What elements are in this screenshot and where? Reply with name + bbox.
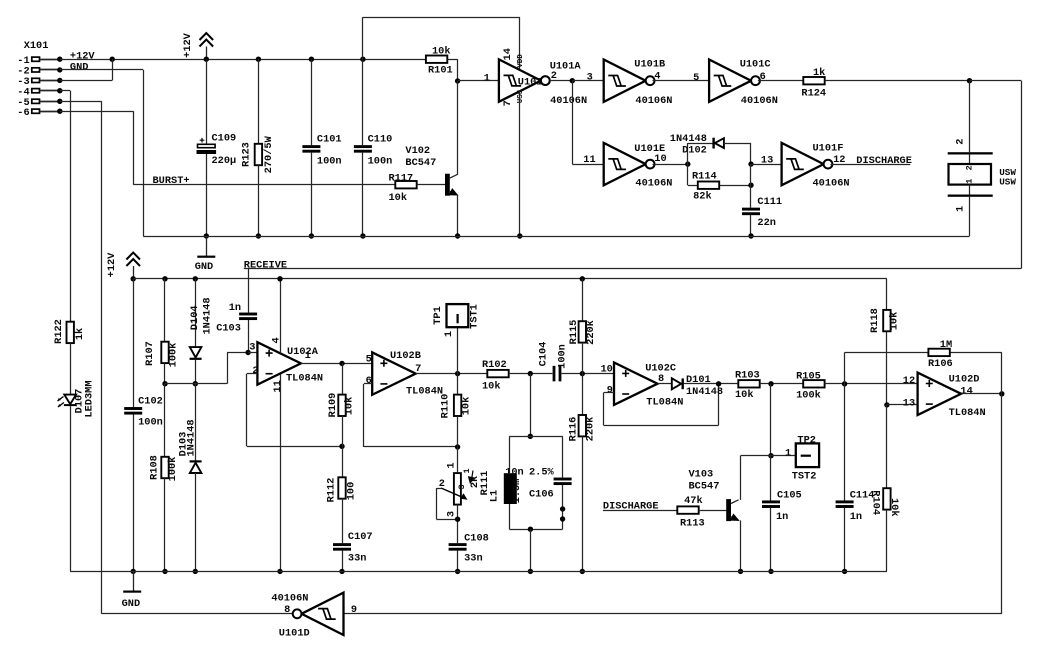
- svg-text:100k: 100k: [796, 389, 821, 401]
- junction +12V mid rail at R107: [162, 276, 167, 281]
- wire branch down to U101E pin 11: [572, 81, 574, 164]
- transistor V102 BC547: [445, 174, 450, 196]
- svg-text:33n: 33n: [464, 552, 483, 564]
- wire D102 anode side: [688, 143, 714, 145]
- svg-text:1N4148: 1N4148: [670, 133, 707, 145]
- svg-text:TL084N: TL084N: [286, 373, 323, 385]
- junction U102D pin13 node: [884, 402, 889, 407]
- wire crystal to bottom plate: [969, 185, 971, 195]
- svg-text:R108: R108: [149, 455, 161, 480]
- junction +12V mid rail at D104: [193, 276, 198, 281]
- wire transducer top lead: [969, 81, 971, 153]
- wire R115 upper: [582, 279, 584, 321]
- junction bottom rail at C101: [309, 233, 314, 238]
- svg-text:U101C: U101C: [740, 58, 771, 70]
- svg-text:10k: 10k: [389, 192, 408, 204]
- svg-text:BURST+: BURST+: [153, 175, 190, 187]
- svg-text:1.5m: 1.5m: [511, 479, 523, 504]
- junction GND rail at D103: [193, 569, 198, 574]
- resistor R107 100k: [161, 342, 168, 363]
- junction R109 top: [339, 361, 344, 366]
- svg-text:USW: USW: [999, 176, 1016, 187]
- svg-text:10k: 10k: [735, 389, 754, 401]
- svg-text:1n: 1n: [850, 511, 862, 523]
- svg-text:TST2: TST2: [792, 471, 817, 483]
- wire tank top rail: [509, 436, 562, 438]
- wire U102A pin4 to +12V rail: [280, 279, 282, 353]
- svg-text:220k: 220k: [585, 417, 597, 442]
- wire C105 upper: [770, 456, 772, 501]
- wire U102A pin2 feedback: [247, 373, 258, 375]
- wire R104 lower: [886, 510, 888, 572]
- svg-text:R102: R102: [482, 359, 507, 371]
- inductor L1 1.5m: [504, 473, 517, 504]
- svg-text:C111: C111: [757, 196, 782, 208]
- junction U102A pin3 node: [245, 350, 250, 355]
- wire right border down to RECEIVE: [1021, 81, 1023, 269]
- transducer USW bottom plate: [948, 195, 993, 197]
- wire D103 upper: [195, 384, 197, 461]
- wire pin 1 into U101A: [458, 80, 499, 82]
- power symbol +12V arrow (top): [200, 33, 214, 47]
- svg-text:100k: 100k: [168, 343, 180, 368]
- resistor R115 220k: [579, 321, 586, 342]
- junction bottom rail at R123: [256, 233, 261, 238]
- svg-text:40106N: 40106N: [741, 95, 778, 107]
- svg-text:C102: C102: [138, 395, 163, 407]
- svg-text:TL084N: TL084N: [406, 385, 443, 397]
- svg-text:1k: 1k: [74, 328, 86, 340]
- wire node riser to pin3 row: [227, 353, 229, 384]
- wire R116 upper: [582, 374, 584, 415]
- capacitor C103 1n: [239, 313, 257, 316]
- svg-text:1: 1: [462, 468, 472, 473]
- svg-text:R115: R115: [568, 320, 580, 345]
- resistor R117 10k: [395, 181, 416, 188]
- capacitor C109 electrolytic 220u: [200, 138, 205, 143]
- svg-text:100k: 100k: [167, 457, 179, 482]
- diode D102 1N4148 (cathode left): [712, 138, 714, 149]
- junction GND rail at C102: [131, 569, 136, 574]
- svg-text:33n: 33n: [348, 552, 367, 564]
- svg-text:100: 100: [346, 482, 358, 501]
- wire transducer bottom lead to rail: [969, 197, 971, 236]
- wire R102 right: [509, 373, 553, 375]
- junction output/feedback: [999, 391, 1004, 396]
- wire to TST2: [741, 455, 796, 457]
- junction GND rail at V103: [738, 569, 743, 574]
- svg-text:10k: 10k: [344, 397, 356, 416]
- transistor V103 BC547: [726, 499, 731, 521]
- svg-text:C105: C105: [777, 490, 802, 502]
- wire R113 to V103 base: [699, 510, 727, 512]
- svg-text:R124: R124: [801, 87, 826, 99]
- wire R122 to LED: [70, 343, 72, 395]
- junction transducer feed: [967, 78, 972, 83]
- junction R103/R105/TP2 node: [768, 381, 773, 386]
- wire C110 column upper: [362, 59, 364, 145]
- svg-text:L1: L1: [489, 490, 501, 502]
- svg-text:D104: D104: [189, 305, 201, 330]
- svg-text:1N4148: 1N4148: [202, 297, 214, 334]
- svg-text:GND: GND: [195, 261, 214, 273]
- svg-text:82k: 82k: [693, 191, 712, 203]
- wire R101 to pin1 node: [447, 59, 457, 61]
- transducer USW crystal body: [949, 164, 992, 185]
- junction +12V mid rail at U102A pin4: [277, 276, 282, 281]
- wire X101 pin -2 GND to top rail: [60, 69, 143, 71]
- wire C107 lower: [342, 551, 344, 572]
- wire C101 column upper: [311, 59, 313, 145]
- resistor R102 10k: [487, 370, 508, 377]
- svg-text:+12V: +12V: [182, 32, 194, 58]
- svg-text:U101F: U101F: [813, 143, 844, 155]
- svg-text:10: 10: [601, 364, 613, 376]
- svg-text:LED3MM: LED3MM: [84, 380, 96, 417]
- resistor R118 10k: [883, 310, 890, 331]
- wire C102 column upper: [133, 279, 135, 407]
- junction +12V rail at R123: [256, 57, 261, 62]
- svg-text:C103: C103: [216, 322, 241, 334]
- svg-text:100n: 100n: [317, 155, 342, 167]
- junction node +12V at x101-3 riser: [110, 57, 115, 62]
- wire R108 lower: [164, 478, 166, 571]
- op-amp U102A TL084N: [257, 342, 301, 384]
- wire pin3 into U102A: [248, 352, 257, 354]
- wire R117 to V102 base: [417, 184, 445, 186]
- svg-text:R122: R122: [53, 319, 65, 344]
- resistor R109 10k: [338, 395, 345, 416]
- svg-text:100n: 100n: [368, 155, 393, 167]
- junction TP2/V103 collector node: [768, 453, 773, 458]
- ground symbol GND (top): [206, 236, 208, 257]
- wire C103 from RECEIVE: [248, 269, 250, 313]
- junction pin12/R106/C114 node: [842, 381, 847, 386]
- wire R109 column upper: [342, 363, 344, 394]
- wire VDD loop: down to U101A pin 14: [519, 17, 521, 70]
- svg-text:+12V: +12V: [106, 252, 118, 278]
- junction GND rail at C114: [842, 569, 847, 574]
- resistor R123 270/5W: [255, 144, 262, 165]
- svg-text:40106N: 40106N: [635, 95, 672, 107]
- svg-text:1: 1: [965, 179, 975, 184]
- resistor R124 1k: [803, 77, 824, 84]
- svg-text:TP2: TP2: [797, 434, 816, 446]
- svg-text:C110: C110: [368, 133, 393, 145]
- svg-text:C109: C109: [212, 133, 237, 145]
- stray junction dots below C106: [560, 506, 565, 511]
- svg-text:11: 11: [583, 154, 595, 166]
- svg-text:2: 2: [965, 165, 975, 170]
- capacitor C110 100n: [354, 145, 372, 148]
- wire bottom return to U101D input: [344, 613, 1002, 615]
- junction +12V rail at C110: [360, 57, 365, 62]
- wire VDD loop: left riser: [362, 17, 364, 59]
- capacitor C114 1n: [836, 500, 854, 503]
- wire U102A pin11 to GND rail: [280, 374, 282, 572]
- junction pin13 node: [748, 161, 753, 166]
- svg-text:11: 11: [272, 380, 284, 392]
- wire mid GND rail: [70, 571, 887, 573]
- svg-text:C104: C104: [538, 342, 550, 367]
- wire V103 collector riser: [740, 456, 742, 500]
- capacitor C111 22n: [742, 208, 760, 211]
- svg-text:13: 13: [903, 397, 915, 409]
- svg-text:40106N: 40106N: [813, 178, 850, 190]
- wire TP2 branch down: [770, 384, 772, 456]
- wire C104 to U102C pin10: [562, 373, 614, 375]
- svg-text:R101: R101: [428, 65, 453, 77]
- junction GND rail at R116: [580, 569, 585, 574]
- inverter U101B 40106N: [604, 60, 646, 102]
- svg-text:40106N: 40106N: [271, 592, 308, 604]
- ground symbol GND (bottom): [133, 571, 135, 591]
- svg-text:6: 6: [760, 71, 766, 83]
- svg-text:10k: 10k: [888, 498, 900, 517]
- diode D101 1N4148 (cathode right): [672, 378, 681, 389]
- svg-text:R123: R123: [241, 142, 253, 167]
- wire L1 upper: [509, 436, 511, 473]
- junction +12V mid rail at arrow/C102: [131, 276, 136, 281]
- wire V102 collector riser: [457, 81, 459, 175]
- capacitor C108 33n: [449, 543, 467, 546]
- capacitor C102 100n: [124, 407, 142, 410]
- svg-text:3: 3: [587, 72, 593, 84]
- wire C105 lower: [770, 508, 772, 572]
- wire U101A output to branch node: [550, 80, 573, 82]
- junction U101A pin 1 node: [455, 78, 460, 83]
- svg-text:R106: R106: [928, 358, 953, 370]
- wire R111 top: [457, 447, 459, 473]
- resistor R112 100: [338, 477, 345, 498]
- svg-text:1: 1: [305, 350, 311, 362]
- wire node up to D102: [687, 143, 689, 164]
- svg-text:40106N: 40106N: [635, 177, 672, 189]
- svg-text:12: 12: [903, 375, 915, 387]
- wire C106 lower: [562, 485, 564, 529]
- wire X101 pin -4 down to R122: [60, 90, 70, 92]
- svg-text:1N4148: 1N4148: [686, 386, 723, 398]
- inverter U101E 40106N: [604, 143, 646, 185]
- wire R116 lower: [582, 436, 584, 571]
- diode D103 1N4148 (cathode up): [190, 460, 202, 462]
- svg-text:R118: R118: [869, 308, 881, 333]
- svg-text:10: 10: [654, 153, 666, 165]
- svg-text:14: 14: [960, 385, 972, 397]
- svg-text:1: 1: [443, 331, 455, 337]
- wire R118 from +12V rail: [886, 279, 888, 310]
- wire R123 column lower: [258, 165, 260, 236]
- svg-text:6: 6: [366, 375, 372, 387]
- wire R114 right to node: [720, 185, 751, 187]
- svg-text:VDD: VDD: [517, 54, 525, 68]
- wire X101 pin -3 to +12V: [60, 80, 112, 82]
- svg-text:1: 1: [446, 462, 458, 468]
- svg-text:270/5W: 270/5W: [263, 135, 275, 173]
- svg-text:R112: R112: [326, 478, 338, 503]
- svg-text:D101: D101: [686, 374, 711, 386]
- svg-text:1k: 1k: [813, 67, 825, 79]
- junction R110/TP1 node: [455, 371, 460, 376]
- junction D102/R114 left: [685, 161, 690, 166]
- wire R106 feedback riser right: [1001, 352, 1003, 393]
- wire U102B pin6 feedback: [364, 383, 372, 385]
- wire C114 upper: [844, 384, 846, 501]
- wire C108 lower: [457, 551, 459, 572]
- wire D103 lower: [195, 473, 197, 571]
- svg-text:R117: R117: [389, 172, 414, 184]
- wire C111 to bottom rail: [750, 215, 752, 236]
- svg-text:RECEIVE: RECEIVE: [244, 259, 287, 271]
- svg-text:TL084N: TL084N: [646, 396, 683, 408]
- wire V103 emitter to GND rail: [740, 520, 742, 571]
- wire R110 lower: [457, 416, 459, 447]
- svg-text:TP1: TP1: [432, 306, 444, 325]
- op-amp U102C TL084N: [614, 363, 658, 405]
- wire R108 upper: [164, 384, 166, 457]
- junction GND rail at C107: [339, 569, 344, 574]
- wire node horizontal: [165, 383, 227, 385]
- wire R107 lower: [164, 363, 166, 384]
- wire C102 column lower: [133, 415, 135, 572]
- wire C103 to pin3: [248, 320, 250, 353]
- svg-text:1: 1: [484, 72, 490, 84]
- wire U102C pin9 feedback: [604, 392, 615, 394]
- svg-text:1: 1: [785, 447, 791, 459]
- junction pin10/R115/R116 node: [580, 371, 585, 376]
- wire pin13 node down through R114 node to C111: [750, 164, 752, 208]
- diode D104 1N4148 (cathode down): [190, 347, 202, 357]
- wire C114 lower: [844, 508, 846, 572]
- junction bottom rail at U101A pin7: [517, 233, 522, 238]
- test point TP1 TST1 square: [447, 304, 469, 327]
- wire R118 lower: [886, 332, 888, 405]
- svg-text:2: 2: [955, 139, 967, 145]
- svg-text:R113: R113: [680, 517, 705, 529]
- svg-text:BC547: BC547: [689, 480, 720, 492]
- capacitor C106 10n 2.5%: [554, 478, 572, 481]
- inverter U101A 40106N: [499, 59, 541, 101]
- svg-text:1n: 1n: [776, 511, 788, 523]
- svg-text:TST1: TST1: [469, 304, 481, 329]
- wire D104 upper: [195, 279, 197, 347]
- wire L1 lower: [509, 504, 511, 529]
- wire R103 to R105: [760, 383, 804, 385]
- capacitor C107 33n: [333, 543, 351, 546]
- svg-text:2: 2: [252, 365, 258, 377]
- svg-text:U102A: U102A: [287, 346, 319, 358]
- inverter U101C 40106N: [709, 60, 751, 102]
- svg-text:BC547: BC547: [405, 157, 436, 169]
- wire R106 row: [845, 352, 928, 354]
- resistor R114 82k: [698, 182, 719, 189]
- svg-text:1M: 1M: [940, 339, 952, 351]
- svg-text:C101: C101: [317, 133, 342, 145]
- svg-text:1n: 1n: [229, 302, 241, 314]
- wire to right border: [970, 80, 1022, 82]
- wire VDD loop: top: [363, 17, 520, 19]
- svg-text:8: 8: [284, 604, 290, 616]
- svg-text:220k: 220k: [585, 320, 597, 345]
- wire R107 upper: [164, 279, 166, 342]
- svg-text:GND: GND: [122, 598, 141, 610]
- inverter U101D 40106N (mirrored): [302, 593, 344, 635]
- junction R114/C111: [748, 183, 753, 188]
- svg-text:C114: C114: [850, 489, 875, 501]
- wire U102D output down right border: [1001, 394, 1003, 614]
- svg-text:U101D: U101D: [279, 627, 310, 639]
- wire C101 column lower: [311, 153, 313, 236]
- wire tank feed riser: [530, 374, 532, 437]
- svg-text:5: 5: [693, 72, 699, 84]
- svg-text:U101B: U101B: [634, 58, 665, 70]
- wire node to U101F pin 13: [751, 164, 782, 166]
- wire U102B out row: [416, 373, 488, 375]
- wire R114 branch left: [687, 164, 689, 185]
- svg-text:7: 7: [502, 100, 514, 106]
- wire D101 to R103: [684, 383, 738, 385]
- svg-text:D102: D102: [682, 144, 707, 156]
- wire pin13 into U102D: [887, 404, 918, 406]
- svg-text:5: 5: [366, 353, 372, 365]
- svg-text:V103: V103: [689, 468, 714, 480]
- junction D104/D103 node: [193, 381, 198, 386]
- svg-text:C108: C108: [464, 532, 489, 544]
- resistor R113 47k: [677, 506, 698, 513]
- LED D107 LED3MM: [64, 395, 76, 405]
- svg-text:10n: 10n: [505, 467, 524, 479]
- op-amp U102B TL084N: [372, 352, 416, 394]
- resistor R104 10k: [883, 488, 890, 509]
- net label DISCHARGE (top) with wire: [830, 164, 910, 166]
- wire R112 upper: [342, 446, 344, 477]
- resistor R101 10k: [426, 56, 447, 63]
- junction GND rail at R108: [162, 569, 167, 574]
- svg-text:47k: 47k: [684, 495, 703, 507]
- capacitor C101 100n: [302, 145, 320, 148]
- wire R123 column upper: [258, 59, 260, 144]
- wire U102D out to right border: [961, 393, 1002, 395]
- wire top section ground rail: [143, 236, 969, 238]
- svg-text:R116: R116: [568, 417, 580, 442]
- wire R104 upper: [886, 405, 888, 488]
- wire U101A pin 7 VSS to bottom rail: [519, 92, 521, 236]
- svg-text:U102B: U102B: [390, 350, 421, 362]
- wire R105 to U102D pin12: [825, 383, 918, 385]
- junction D101/feedback node: [716, 381, 721, 386]
- svg-text:9: 9: [351, 604, 357, 616]
- svg-text:DISCHARGE: DISCHARGE: [856, 155, 912, 167]
- svg-text:1: 1: [955, 206, 967, 212]
- junction GND rail at U102A pin11: [277, 569, 282, 574]
- op-amp U102D TL084N: [918, 373, 962, 415]
- wire BURST+ line: [133, 184, 395, 186]
- svg-text:14: 14: [502, 48, 514, 60]
- svg-text:40106N: 40106N: [550, 95, 587, 107]
- wire +12V rail from X101-1 to R101: [60, 59, 426, 61]
- svg-text:10k: 10k: [889, 312, 901, 331]
- wire RECEIVE line: [244, 268, 1022, 270]
- svg-text:TL084N: TL084N: [949, 407, 986, 419]
- wire R106 left riser: [844, 352, 846, 383]
- junction bottom rail at C110: [360, 233, 365, 238]
- svg-text:R110: R110: [440, 394, 452, 419]
- svg-text:GND: GND: [70, 61, 89, 73]
- wire U101B out to U101C in: [653, 80, 710, 82]
- svg-text:3: 3: [249, 341, 255, 353]
- svg-text:9: 9: [607, 385, 613, 397]
- wire D102 to right corner: [724, 143, 751, 145]
